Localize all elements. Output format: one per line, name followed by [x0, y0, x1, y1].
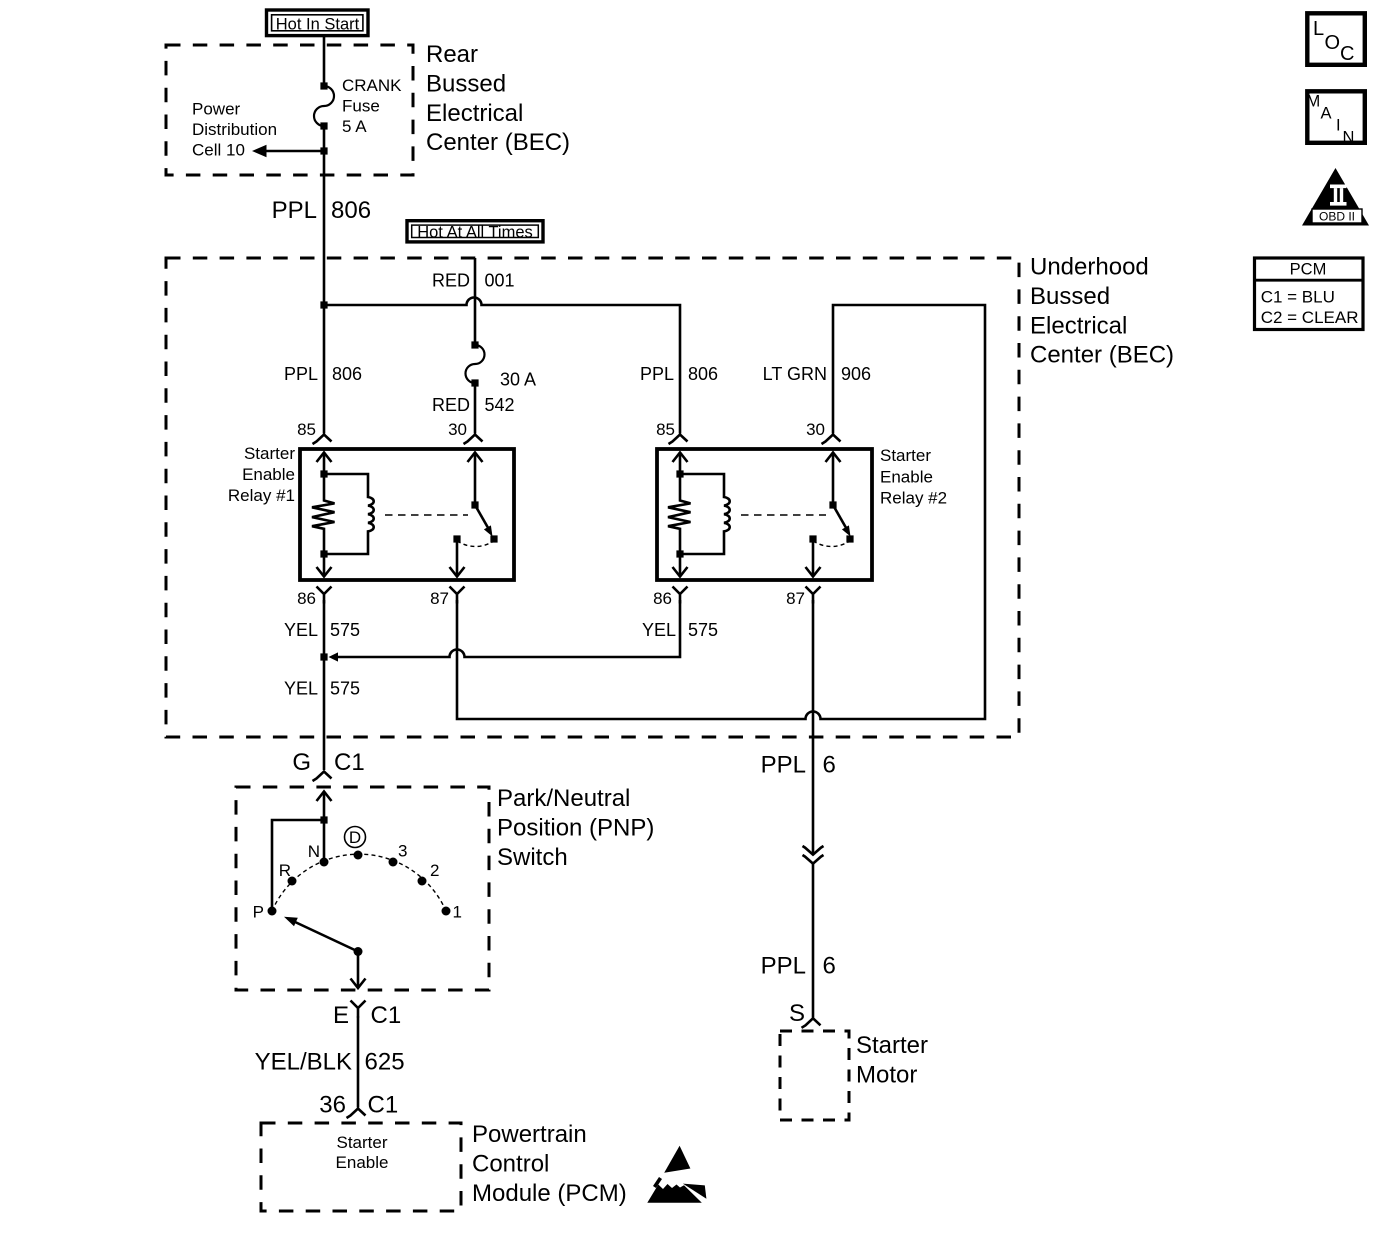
svg-text:LT GRN: LT GRN [763, 364, 827, 384]
svg-text:36: 36 [319, 1092, 346, 1119]
svg-text:CRANK: CRANK [342, 76, 402, 95]
relay K2 resistor [668, 474, 691, 554]
svg-text:Relay #2: Relay #2 [880, 489, 947, 508]
svg-text:R: R [279, 861, 291, 880]
wire YEL/BLK 625 [357, 1017, 360, 1108]
relay K1 pin 30 arrow and common [468, 453, 483, 509]
wire from Hot In Start down to CRANK fuse [323, 37, 326, 86]
label PPL 6 lower [761, 953, 836, 980]
svg-text:85: 85 [297, 420, 316, 439]
svg-text:OBD II: OBD II [1319, 210, 1355, 224]
svg-text:30: 30 [448, 420, 467, 439]
svg-text:575: 575 [330, 620, 360, 640]
pin 85 connector of relay K2 [656, 420, 687, 444]
svg-text:1: 1 [453, 903, 462, 922]
Park/Neutral Position (PNP) Switch dashed box [236, 787, 489, 990]
connector G C1 [292, 749, 364, 781]
label Rear Bussed Electrical Center (BEC) [426, 41, 570, 156]
svg-text:Cell 10: Cell 10 [192, 141, 245, 160]
label Power Distribution Cell 10 with arrow [192, 100, 328, 160]
OBD II symbol [1302, 168, 1369, 226]
svg-text:625: 625 [365, 1049, 405, 1076]
svg-text:87: 87 [786, 589, 805, 608]
svg-text:Starter: Starter [880, 446, 931, 465]
svg-text:A: A [1321, 105, 1332, 123]
LOC reference box [1307, 13, 1365, 65]
relay K1 pin 85 arrow [317, 453, 332, 475]
relay K1 coil node bottom [320, 550, 327, 557]
label Park/Neutral Position (PNP) Switch [497, 785, 654, 871]
svg-text:Electrical: Electrical [1030, 312, 1127, 339]
label Starter Enable inside PCM [336, 1133, 389, 1172]
svg-text:542: 542 [485, 395, 515, 415]
relay K2 pin 85 arrow [673, 453, 688, 475]
label LT GRN 906 [763, 364, 871, 384]
wire RED 001 [474, 258, 477, 345]
relay K1 coil-to-switch dashed link [385, 514, 468, 516]
svg-text:C1: C1 [334, 749, 365, 776]
relay K1 pin 87 arrow [450, 539, 465, 577]
wire PPL 806 bus to relay 2 pin 85 (hops over RED 001) [324, 298, 680, 434]
pin 85 connector of relay K1 [297, 420, 331, 444]
svg-text:Module (PCM): Module (PCM) [472, 1180, 627, 1207]
label Powertrain Control Module (PCM) [472, 1121, 627, 1207]
svg-text:M: M [1307, 93, 1321, 111]
Starter Motor dashed box [780, 1031, 849, 1120]
svg-text:87: 87 [430, 589, 449, 608]
wire relay K1 pin 86 down YEL 575 to G C1 [323, 600, 326, 770]
label PPL 6 upper [761, 752, 836, 779]
Underhood Bussed Electrical Center (BEC) dashed box [166, 258, 1019, 737]
svg-text:PPL: PPL [761, 752, 806, 779]
inline connector on PPL 6 [803, 846, 824, 864]
Rear Bussed Electrical Center (BEC) dashed box [166, 45, 413, 175]
svg-text:C2 = CLEAR: C2 = CLEAR [1261, 308, 1359, 327]
PNP wiper arrow to P [284, 917, 358, 952]
svg-text:YEL: YEL [642, 620, 676, 640]
PNP junction node [320, 816, 327, 823]
PNP contact D with circle [345, 827, 366, 860]
svg-text:C: C [1340, 43, 1354, 65]
svg-text:906: 906 [841, 364, 871, 384]
svg-text:575: 575 [330, 679, 360, 699]
PCM connector legend table [1253, 258, 1364, 330]
label RED 542 [432, 395, 515, 415]
relay K1 switch blade [475, 505, 493, 537]
svg-text:30 A: 30 A [500, 370, 536, 390]
wire relay K2 pin 87 PPL 6 upper [812, 600, 815, 855]
svg-text:PPL: PPL [761, 953, 806, 980]
svg-text:Control: Control [472, 1150, 549, 1177]
svg-text:Starter: Starter [336, 1133, 387, 1152]
svg-text:C1: C1 [368, 1092, 399, 1119]
wire relay K1 pin 87 to relay K2 pin 30 (hops over PPL 6) [457, 305, 985, 719]
svg-text:RED: RED [432, 271, 470, 291]
svg-text:85: 85 [656, 420, 675, 439]
relay K2 coil-to-switch dashed link [741, 514, 826, 516]
relay K1 contact to pin 87 [453, 535, 460, 542]
label Starter Enable Relay #1 [228, 444, 295, 505]
svg-text:575: 575 [688, 620, 718, 640]
svg-text:Underhood: Underhood [1030, 254, 1149, 281]
PNP switch input wire with up arrow [317, 792, 332, 859]
Powertrain Control Module (PCM) dashed box [261, 1123, 461, 1211]
label Starter Motor [856, 1032, 928, 1088]
svg-text:Position (PNP): Position (PNP) [497, 814, 654, 841]
relay K2 coil [680, 474, 730, 554]
svg-text:5 A: 5 A [342, 117, 367, 136]
fuse CRANK Fuse 5 A [314, 76, 402, 136]
svg-text:6: 6 [823, 752, 836, 779]
svg-text:806: 806 [332, 364, 362, 384]
svg-text:Fuse: Fuse [342, 97, 380, 116]
svg-text:001: 001 [485, 271, 515, 291]
svg-text:PPL: PPL [284, 364, 318, 384]
relay K1 resistor [312, 474, 335, 554]
relay K2 normally-open contact [846, 535, 853, 542]
svg-text:Enable: Enable [336, 1153, 389, 1172]
label box "Hot In Start" [267, 10, 369, 36]
label YEL 575 at relay K2 [642, 620, 718, 640]
svg-text:Starter: Starter [244, 444, 295, 463]
svg-text:6: 6 [823, 953, 836, 980]
svg-text:P: P [253, 903, 264, 922]
svg-text:S: S [789, 1000, 805, 1027]
PNP contact dashed arc [272, 854, 446, 911]
connector E C1 [333, 1001, 401, 1030]
svg-text:30: 30 [806, 420, 825, 439]
junction node YEL 575 [320, 653, 327, 660]
wire RED 542 to relay 1 pin 30 [474, 383, 477, 434]
svg-text:Relay #1: Relay #1 [228, 486, 295, 505]
svg-text:806: 806 [331, 197, 371, 224]
label Underhood Bussed Electrical Center (BEC) [1030, 254, 1174, 369]
PNP contact 3 [389, 842, 408, 867]
svg-text:Hot In Start: Hot In Start [276, 15, 360, 33]
svg-text:Bussed: Bussed [1030, 283, 1110, 310]
svg-text:L: L [1313, 18, 1324, 40]
junction node PPL 806 bus [320, 301, 327, 308]
svg-text:C1: C1 [371, 1002, 402, 1029]
svg-text:Distribution: Distribution [192, 120, 277, 139]
PNP contact 2 [418, 861, 440, 886]
PNP contact P [253, 903, 277, 922]
svg-text:PPL: PPL [640, 364, 674, 384]
label PPL 806 at relay 1 pin 85 [284, 364, 362, 384]
relay K2 pin 86 arrow [673, 554, 688, 577]
label YEL/BLK 625 [255, 1049, 405, 1076]
svg-text:YEL/BLK: YEL/BLK [255, 1049, 352, 1076]
svg-text:Powertrain: Powertrain [472, 1121, 587, 1148]
svg-text:Starter: Starter [856, 1032, 928, 1059]
svg-text:O: O [1325, 32, 1341, 54]
svg-text:YEL: YEL [284, 620, 318, 640]
svg-text:E: E [333, 1002, 349, 1029]
pin 30 connector of relay K2 [806, 420, 840, 444]
relay K2 switch blade [833, 505, 851, 537]
svg-text:D: D [349, 828, 361, 847]
svg-text:RED: RED [432, 395, 470, 415]
wire relay K2 pin 86 YEL 575 to junction (hops over pin 87 wire) [329, 600, 681, 662]
svg-text:Switch: Switch [497, 844, 568, 871]
svg-text:YEL: YEL [284, 679, 318, 699]
PNP wire to contact P [272, 820, 324, 907]
relay K1 pin 86 arrow [317, 554, 332, 577]
svg-text:Enable: Enable [242, 465, 295, 484]
connector S at starter motor [789, 1000, 821, 1028]
PNP contact N [308, 842, 329, 867]
svg-text:Power: Power [192, 100, 241, 119]
svg-text:Park/Neutral: Park/Neutral [497, 785, 630, 812]
relay K1 coil node top [320, 470, 327, 477]
svg-text:86: 86 [653, 589, 672, 608]
svg-text:Electrical: Electrical [426, 100, 523, 127]
relay K2 contact to pin 87 [809, 535, 816, 542]
svg-text:Bussed: Bussed [426, 70, 506, 97]
relay K1 contact travel dashed arc [457, 541, 494, 547]
label RED 001 [432, 271, 515, 291]
wire PPL 806 from fuse to relay 1 pin 85 [323, 126, 326, 434]
relay K1 coil [324, 474, 374, 554]
svg-text:N: N [1343, 129, 1355, 147]
wire PPL 6 lower to starter motor [812, 864, 815, 1018]
ESD sensitive device symbol [647, 1146, 706, 1203]
svg-text:Hot At All Times: Hot At All Times [417, 224, 533, 242]
label Starter Enable Relay #2 [880, 446, 947, 508]
svg-text:806: 806 [688, 364, 718, 384]
svg-text:Center (BEC): Center (BEC) [426, 129, 570, 156]
pin 87 connector of relay K1 [430, 587, 464, 609]
svg-text:I: I [1336, 117, 1341, 135]
svg-text:Center (BEC): Center (BEC) [1030, 342, 1174, 369]
svg-text:N: N [308, 842, 320, 861]
svg-text:Motor: Motor [856, 1061, 917, 1088]
relay K1 normally-open contact [490, 535, 497, 542]
pin 30 connector of relay K1 [448, 420, 482, 444]
svg-text:86: 86 [297, 589, 316, 608]
PNP contact 1 [442, 903, 462, 922]
relay K1 Starter Enable Relay #1 box [300, 449, 514, 580]
connector 36 C1 [319, 1092, 398, 1119]
PNP wiper pivot [354, 947, 363, 956]
label PPL 806 at relay 2 pin 85 [640, 364, 718, 384]
label YEL 575 lower [284, 679, 360, 699]
relay K2 coil node top [676, 470, 683, 477]
svg-text:PCM: PCM [1290, 261, 1327, 279]
relay K2 pin 87 arrow [806, 539, 821, 577]
PNP contact R [279, 861, 297, 886]
pin 86 connector of relay K2 [653, 587, 687, 609]
PNP output wire with down arrow [351, 952, 366, 989]
label YEL 575 upper [284, 620, 360, 640]
pin 87 connector of relay K2 [786, 587, 820, 609]
svg-text:3: 3 [398, 842, 407, 861]
relay K2 Starter Enable Relay #2 box [657, 449, 872, 580]
svg-text:G: G [292, 749, 311, 776]
fuse 30 A [466, 341, 537, 389]
relay K2 contact travel dashed arc [813, 541, 850, 547]
MAIN reference box [1307, 91, 1365, 146]
svg-text:C1 = BLU: C1 = BLU [1261, 287, 1335, 306]
relay K2 coil node bottom [676, 550, 683, 557]
pin 86 connector of relay K1 [297, 587, 331, 609]
svg-text:Rear: Rear [426, 41, 478, 68]
svg-text:Enable: Enable [880, 467, 933, 486]
label PPL 806 [272, 197, 371, 224]
label box "Hot At All Times" [407, 221, 543, 242]
svg-text:PPL: PPL [272, 197, 317, 224]
relay K2 pin 30 arrow and common [826, 453, 841, 509]
svg-text:2: 2 [430, 861, 439, 880]
